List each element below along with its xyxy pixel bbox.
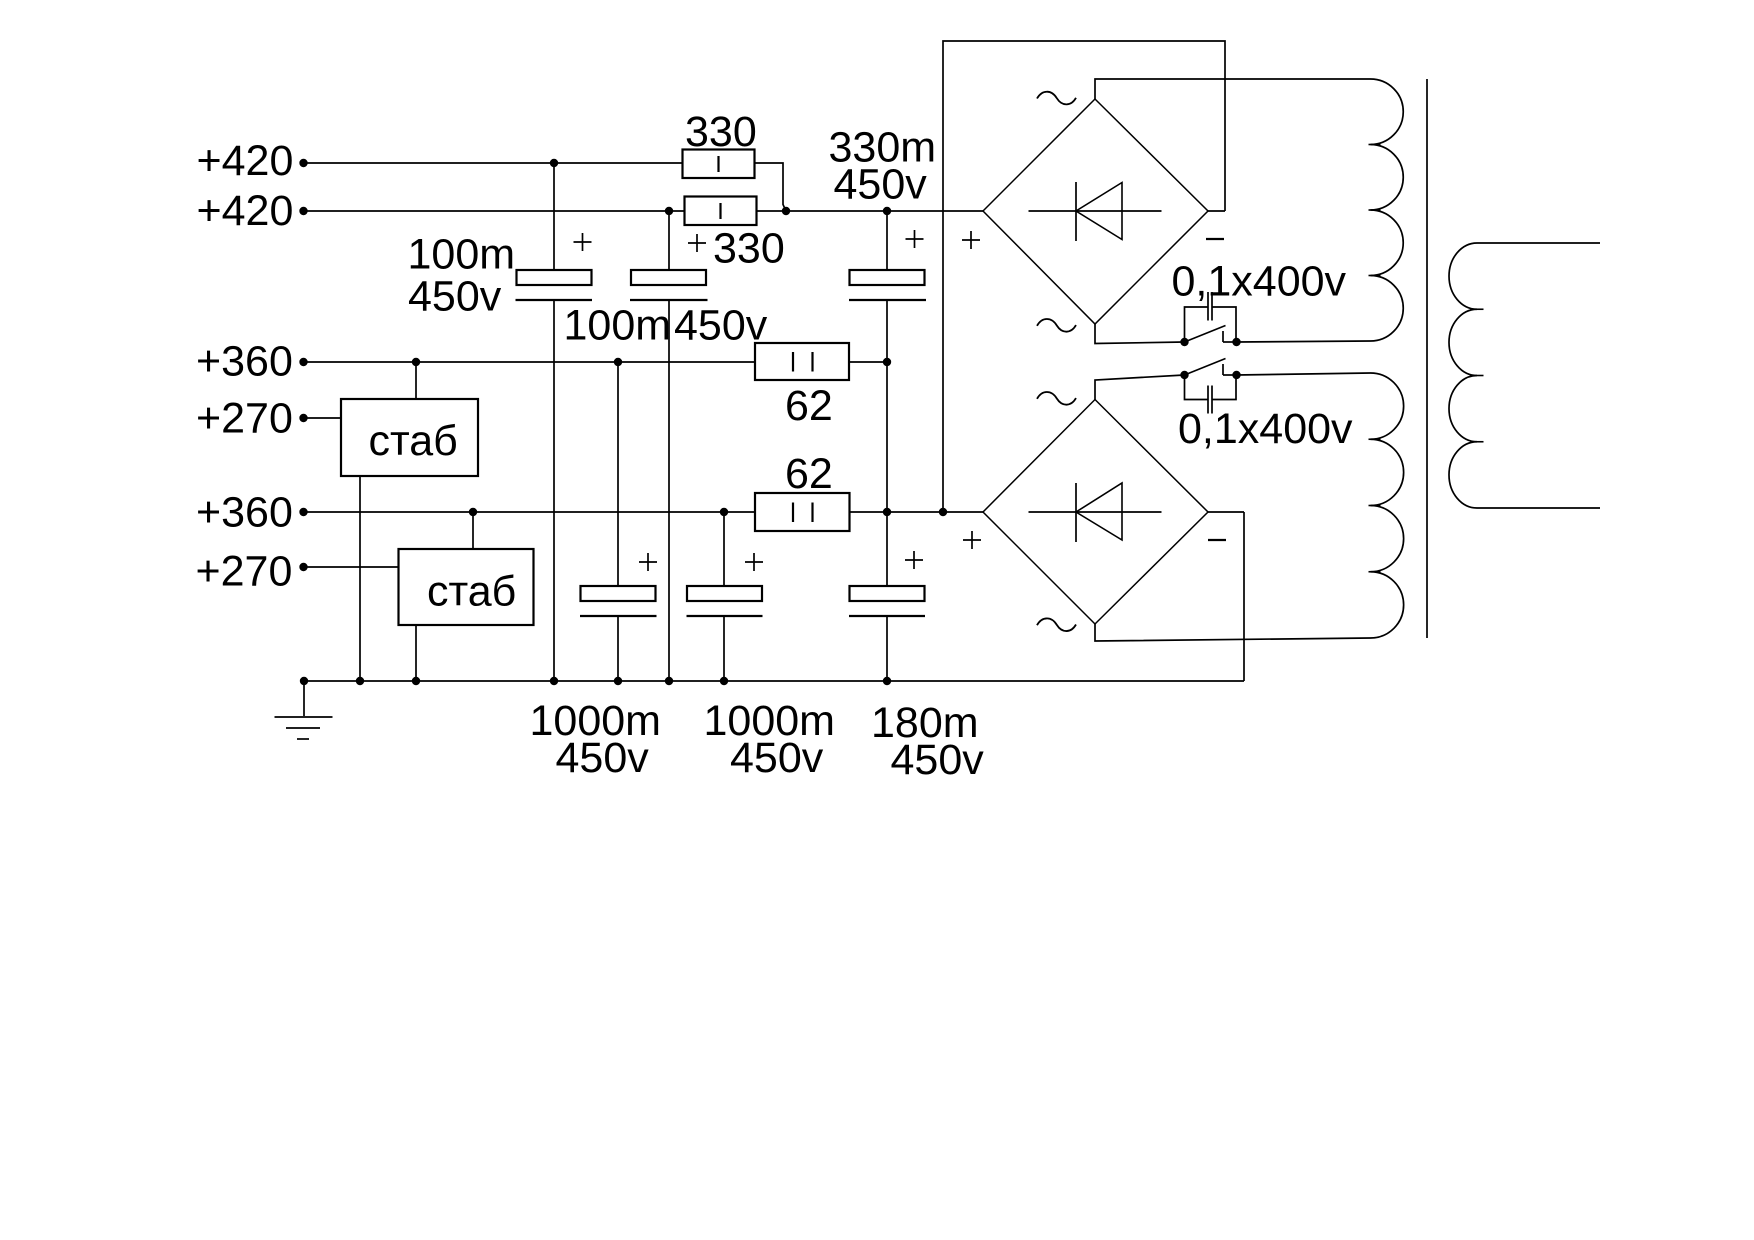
junction dot C4 lead origin <box>614 358 622 366</box>
node +270 (first) label <box>196 394 293 442</box>
wire +360 first rail right segment <box>849 361 887 363</box>
wire stab2 top lead <box>472 512 474 549</box>
capacitor C7 0,1x400v with switch S1 <box>1185 292 1237 342</box>
wire +360 second rail right segment <box>850 511 984 513</box>
capacitor C3 330m 450v <box>849 211 926 586</box>
junction dot +360 first / C3 line <box>883 358 891 366</box>
wire bridge1 minus link <box>1208 210 1225 212</box>
value label 450v (C1) <box>408 273 502 321</box>
junction dot +270 second terminal <box>299 563 307 571</box>
ac mark bridge1 top <box>1037 92 1076 105</box>
svg-text:62: 62 <box>785 382 833 430</box>
node +360 (first) label <box>196 338 293 386</box>
wire +420 second rail left segment <box>304 210 685 212</box>
resistor R2 330 <box>685 197 757 226</box>
junction dot +360 second left terminal <box>299 508 307 516</box>
wire +420 top rail <box>304 162 683 164</box>
ac mark bridge2 top <box>1037 392 1076 405</box>
capacitor C5 1000m 450v <box>687 512 764 681</box>
resistor R3 62 <box>755 343 849 380</box>
ac mark bridge2 bottom <box>1037 618 1076 631</box>
svg-text:100m: 100m <box>564 302 672 350</box>
svg-text:стаб: стаб <box>427 567 516 615</box>
value label 450v (C5) <box>730 734 824 782</box>
svg-text:450v: 450v <box>834 161 928 209</box>
junction dot bus/stab2 <box>412 677 420 685</box>
stabilizer U2 (стаб) <box>399 549 534 625</box>
svg-text:стаб: стаб <box>369 417 458 465</box>
capacitor C8 0,1x400v with switch S2 <box>1185 359 1237 414</box>
svg-text:+420: +420 <box>197 137 294 185</box>
svg-text:0,1x400v: 0,1x400v <box>1178 405 1353 453</box>
capacitor C1 100m 450v <box>516 163 593 681</box>
wire stab1 top lead <box>415 362 417 399</box>
junction dot bus/C2 <box>665 677 673 685</box>
wire ground bus <box>304 680 1244 682</box>
wire bridge1 bottom stub <box>1095 324 1185 344</box>
wire bridge2 minus link <box>1208 511 1244 513</box>
junction dot C8 right <box>1232 371 1240 379</box>
svg-text:450v: 450v <box>408 273 502 321</box>
junction dot +420 second left terminal <box>299 207 307 215</box>
junction dot bus/ground <box>300 677 308 685</box>
junction dot C5 lead origin <box>720 508 728 516</box>
value label 0,1x400v (C7) <box>1172 258 1347 306</box>
node +360 (second) label <box>196 488 293 536</box>
wire +360 first rail left segment <box>304 361 756 363</box>
value label 450v (C3) <box>834 161 928 209</box>
value label 330m (C3) <box>829 124 937 172</box>
junction dot +420 top left terminal <box>299 159 307 167</box>
junction dot +420 top / C1 lead <box>550 159 558 167</box>
wire stab2 bottom lead <box>415 625 417 681</box>
svg-text:100m: 100m <box>408 231 516 279</box>
wire C8 to winding2 <box>1237 373 1371 375</box>
value label 100m (C2) <box>564 302 672 350</box>
ac mark bridge1 bottom <box>1037 319 1076 332</box>
junction dot +360 first left terminal <box>299 358 307 366</box>
svg-text:+270: +270 <box>196 547 293 595</box>
wire +270 second to stab2 <box>304 566 399 568</box>
bridge rectifier D1 <box>983 99 1208 324</box>
junction dot C7 left <box>1180 338 1188 346</box>
minus label bridge2 <box>1208 539 1226 541</box>
node +420 (second) label <box>197 187 294 235</box>
wire stab1 bottom lead <box>359 476 361 681</box>
value label 1000m (C5) <box>704 697 835 745</box>
wire R1 right link down to second rail <box>755 163 787 211</box>
capacitor C6 180m 450v <box>849 551 925 681</box>
value label 330 (R1) <box>685 108 757 156</box>
value label 100m (C1) <box>408 231 516 279</box>
value label 62 (R4) <box>785 450 833 498</box>
svg-text:450v: 450v <box>891 736 985 784</box>
svg-text:450v: 450v <box>730 734 824 782</box>
svg-text:62: 62 <box>785 450 833 498</box>
winding2 cusp horns <box>1369 439 1381 572</box>
label стаб (U2) <box>427 567 516 615</box>
value label 330 (R2) <box>713 225 785 273</box>
wire +270 first to stab1 <box>304 417 342 419</box>
junction dot C3 lead <box>883 207 891 215</box>
svg-text:+360: +360 <box>196 488 293 536</box>
value label 450v (C4) <box>556 734 650 782</box>
junction dot stab2 input <box>469 508 477 516</box>
svg-text:330: 330 <box>713 225 785 273</box>
transformer T1 winding 1 <box>1371 79 1404 341</box>
junction dot +360 second / bridge loop <box>939 508 947 516</box>
value label 1000m (C4) <box>530 697 661 745</box>
wire bridge2 top stub <box>1095 375 1185 400</box>
node +420 (top) label <box>197 137 294 185</box>
wire +420 second rail right segment to bridge <box>756 210 983 212</box>
resistor R4 62 <box>755 493 850 531</box>
plus label bridge1 <box>962 231 980 249</box>
svg-text:+360: +360 <box>196 338 293 386</box>
junction dot +360 second / C3 line <box>883 508 891 516</box>
value label 62 (R3) <box>785 382 833 430</box>
svg-text:0,1x400v: 0,1x400v <box>1172 258 1347 306</box>
wire bridge1 top stub <box>1095 79 1371 99</box>
svg-text:+420: +420 <box>197 187 294 235</box>
ground symbol <box>275 681 333 739</box>
svg-text:450v: 450v <box>674 302 768 350</box>
junction dot C2 lead <box>665 207 673 215</box>
wire +360 second rail left segment <box>304 511 756 513</box>
stabilizer U1 (стаб) <box>341 399 478 476</box>
svg-text:+270: +270 <box>196 394 293 442</box>
transformer T1 secondary winding <box>1449 243 1600 508</box>
junction dot bus/C4 <box>614 677 622 685</box>
wire bridge loop top <box>943 41 1225 512</box>
junction dot C8 left <box>1180 371 1188 379</box>
junction dot bus/C1 <box>550 677 558 685</box>
label стаб (U1) <box>369 417 458 465</box>
transformer T1 core <box>1426 79 1428 638</box>
wire bridge2 minus down to bus <box>1243 512 1245 681</box>
capacitor C4 1000m 450v <box>580 362 657 681</box>
svg-text:450v: 450v <box>556 734 650 782</box>
junction dot C7 right <box>1232 338 1240 346</box>
junction dot stab1 input <box>412 358 420 366</box>
plus label bridge2 <box>963 531 981 549</box>
transformer T1 winding 2 <box>1371 373 1404 638</box>
value label 0,1x400v (C8) <box>1178 405 1353 453</box>
svg-text:330: 330 <box>685 108 757 156</box>
value label 450v (C2) <box>674 302 768 350</box>
bridge rectifier D2 <box>983 400 1208 625</box>
capacitor C2 100m 450v <box>630 211 708 681</box>
resistor R1 330 <box>683 150 755 179</box>
junction dot bus/C5 <box>720 677 728 685</box>
wire bridge2 bottom stub <box>1095 624 1371 641</box>
wire C7 to winding1 <box>1237 341 1371 342</box>
junction dot +270 first terminal <box>299 414 307 422</box>
junction dot bus/C6 <box>883 677 891 685</box>
winding1 cusp horns <box>1369 145 1381 276</box>
node +270 (second) label <box>196 547 293 595</box>
value label 450v (C6) <box>891 736 985 784</box>
minus label bridge1 <box>1206 238 1224 240</box>
junction dot R1 link <box>782 207 790 215</box>
value label 180m (C6) <box>871 699 979 747</box>
junction dot bus/stab1 <box>356 677 364 685</box>
